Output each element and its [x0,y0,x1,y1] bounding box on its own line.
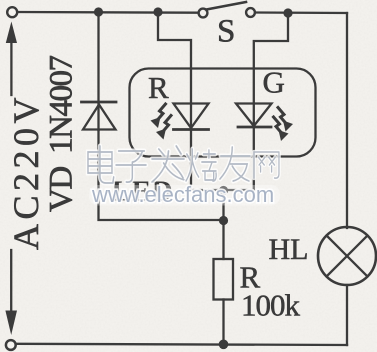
junction dot VD node [219,216,228,225]
wire VD branch from top bus [97,12,99,130]
svg-text:100k: 100k [241,288,301,323]
wire top bus from terminal to switch [18,11,199,14]
wire lamp bottom to bottom bus [346,285,348,345]
switch S right contact [246,8,255,17]
svg-text:VD 1N4007: VD 1N4007 [44,56,80,212]
wire switch to top-right corner [255,11,347,14]
LED G cathode bar [238,126,271,129]
resistor R body [214,259,234,300]
wire node down to resistor [222,190,224,259]
watermark hanzi zi [116,151,146,182]
svg-text:G: G [263,65,285,100]
lamp HL cross diagonal 2 [327,236,368,277]
LED R triangle [174,104,209,129]
wire VD anode down and right to node [99,131,223,221]
junction dot top R-branch [153,7,162,16]
watermark hanzi fa [152,146,185,182]
LED package outline [130,69,316,157]
svg-text:www.elecfans.com: www.elecfans.com [91,182,274,207]
LED G emission bolts [274,108,294,142]
watermark url band [89,185,280,206]
watermark hanzi dian [88,146,114,183]
junction dot top G-branch [283,8,292,17]
wire cathode bus [191,189,254,191]
LED R emission bolts [151,104,172,140]
svg-text:AC220V: AC220V [6,93,46,250]
lamp HL cross diagonal 1 [327,236,368,277]
watermark hanzi wang [254,152,279,178]
junction dot cathode bus [219,186,228,195]
wire right side down to lamp [346,13,348,228]
svg-text:S: S [217,14,235,50]
watermark hanzi you [220,147,250,181]
diode VD triangle [83,105,116,130]
switch S arm [207,2,246,9]
lamp HL circle [318,227,376,285]
arrow up (AC source top) [10,40,12,95]
terminal top-left [7,7,17,17]
wire resistor to bottom bus [222,300,224,345]
LED R cathode bar [174,128,209,131]
wire bottom bus [17,344,347,345]
svg-text:HL: HL [269,233,309,266]
switch S left contact [199,9,208,18]
wire R-branch from top bus through LED R [158,12,191,190]
wire G-branch from top bus through LED G [254,13,288,190]
diode VD cathode bar [82,101,117,104]
junction dot bottom bus [219,340,229,350]
watermark hanzi shao [186,149,216,181]
junction dot top VD [94,7,103,16]
svg-text:R: R [148,70,169,105]
arrow down (AC source bottom) [10,250,12,312]
LED G triangle [236,104,272,127]
terminal bottom-left [6,340,16,350]
